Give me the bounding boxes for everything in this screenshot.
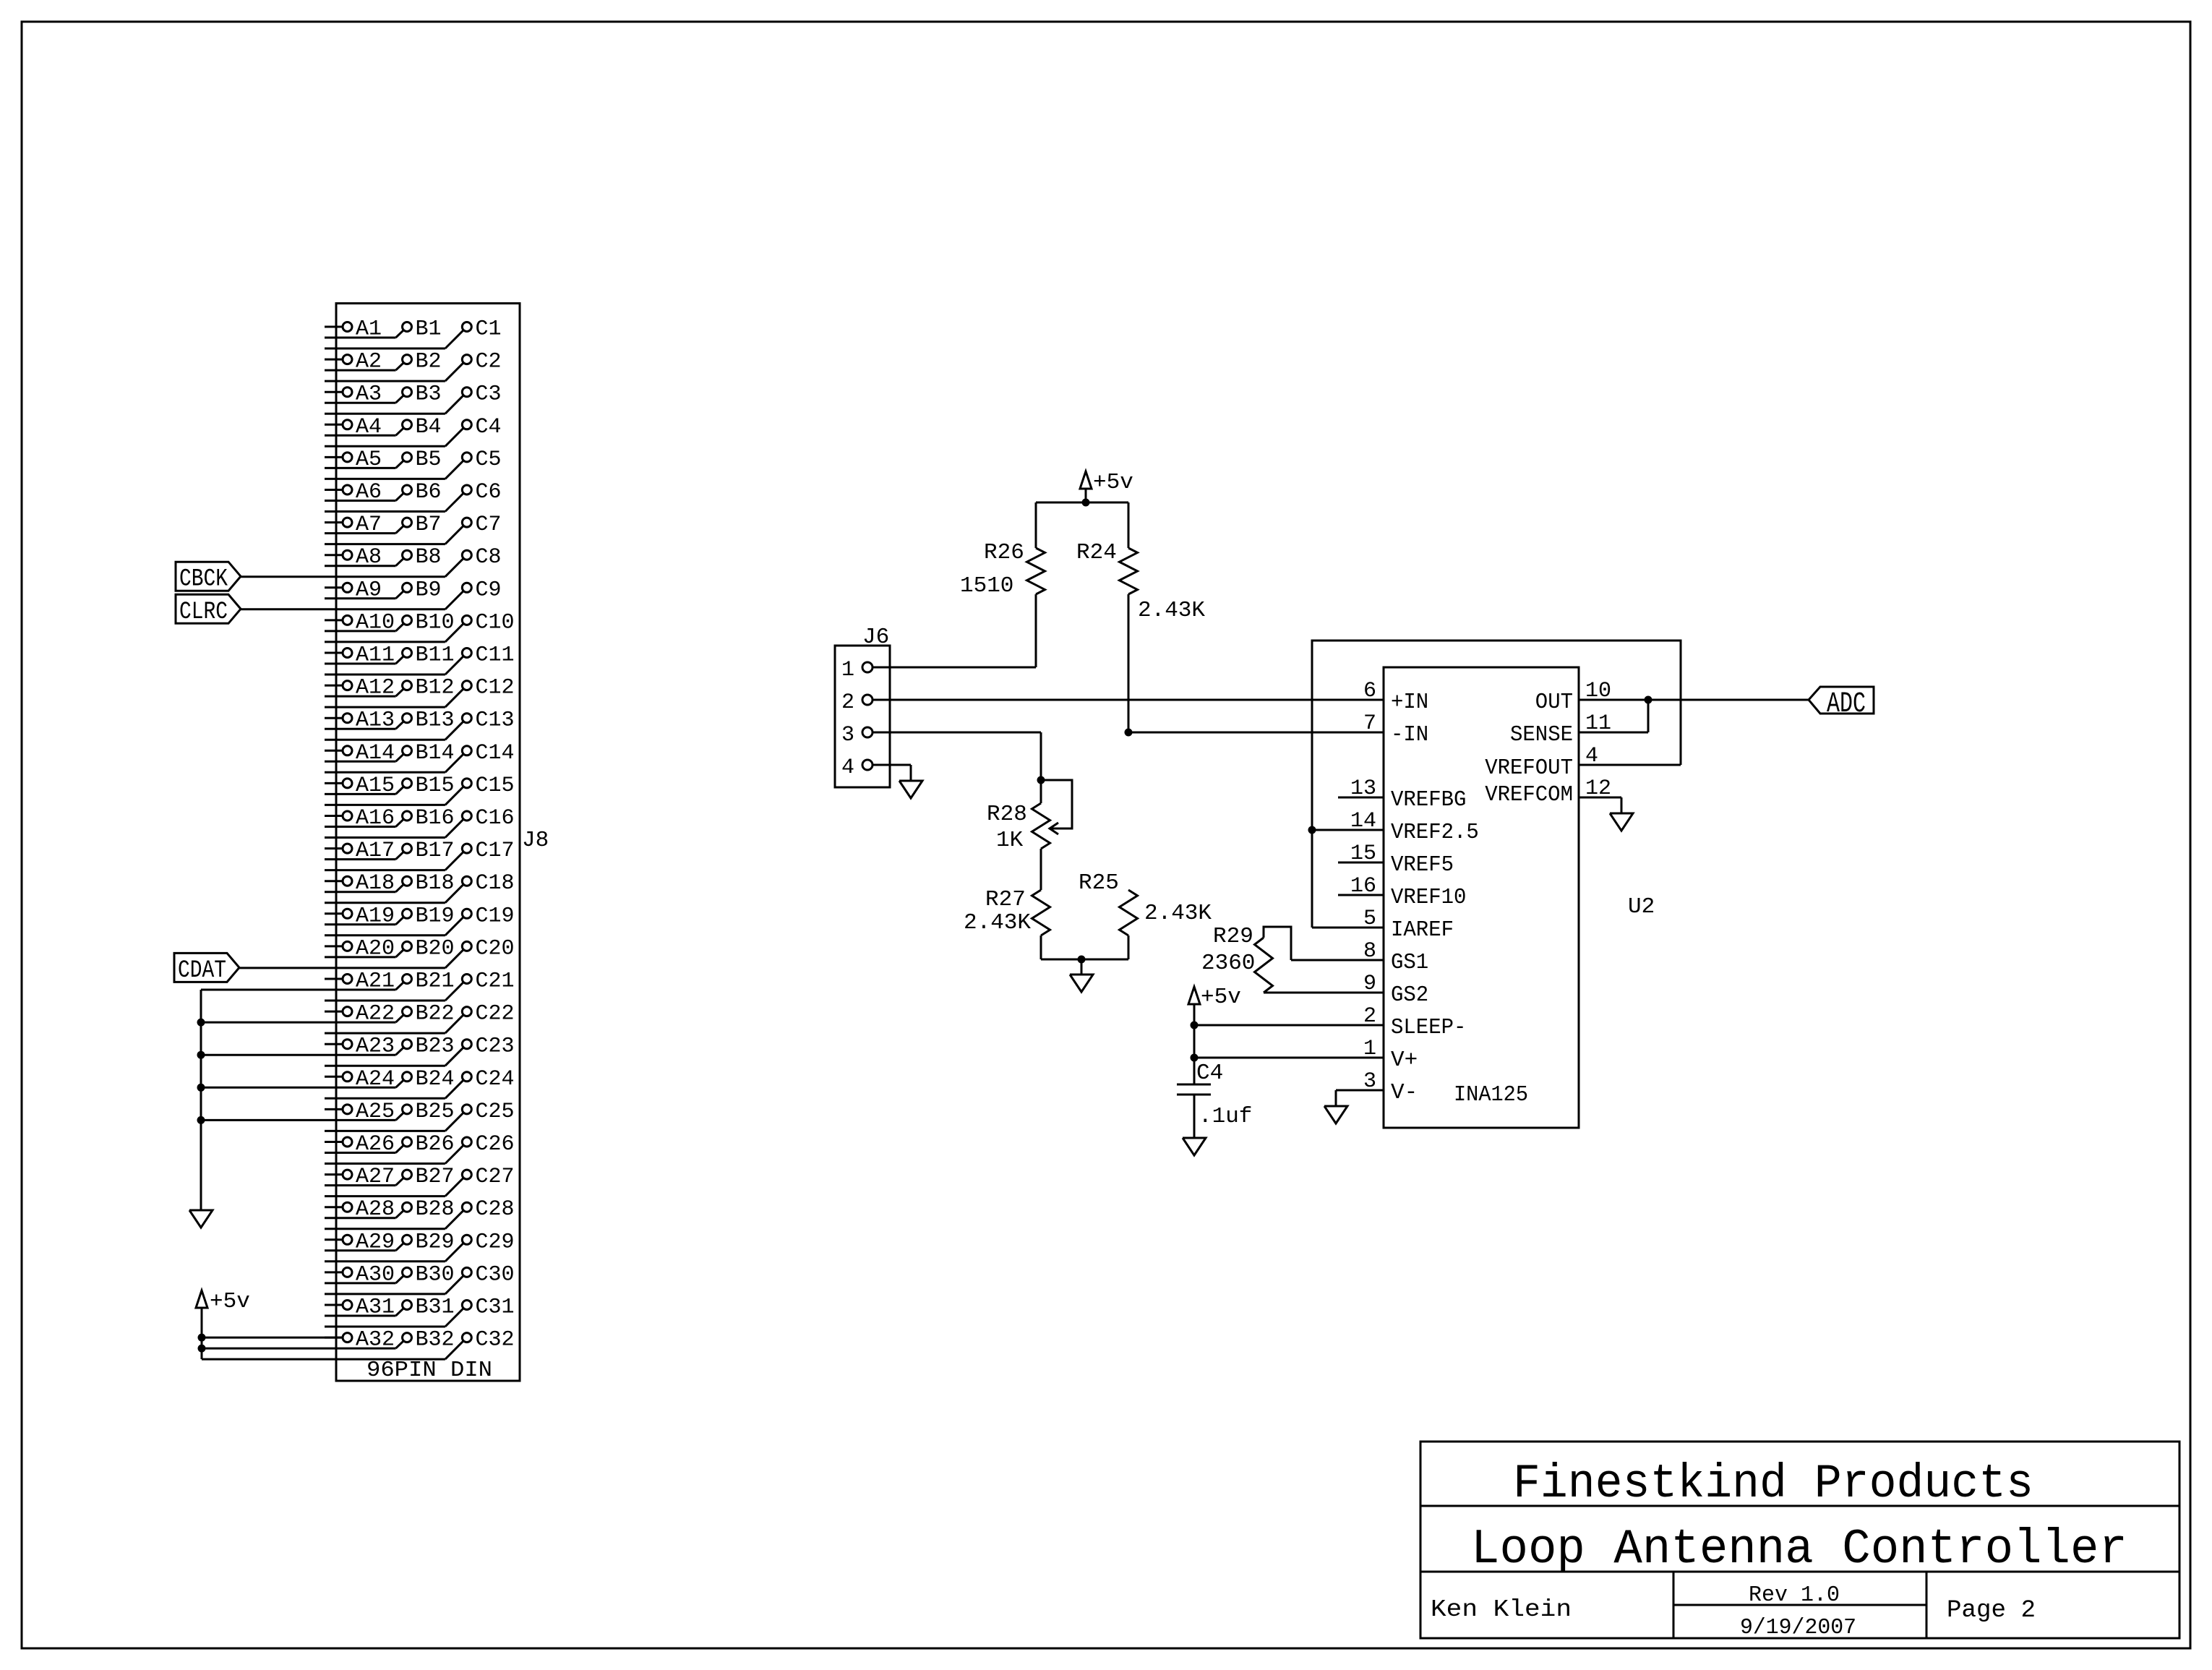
svg-text:VREFCOM: VREFCOM — [1485, 782, 1573, 808]
svg-text:C26: C26 — [476, 1132, 515, 1157]
J8 row 9: pins A9, B9, C9 — [325, 578, 502, 609]
junction +5v B32 — [198, 1345, 206, 1353]
U2 pin label VREF5 — [1391, 852, 1454, 878]
svg-text:C27: C27 — [476, 1165, 515, 1189]
J8 row 17: pins A17, B17, C17 — [325, 839, 515, 870]
junction +5v rail — [1082, 499, 1090, 507]
svg-text:VREF10: VREF10 — [1391, 885, 1466, 910]
svg-text:U2: U2 — [1628, 894, 1655, 920]
J8 row 23: pins A23, B23, C23 — [325, 1035, 515, 1066]
svg-text:VREF2.5: VREF2.5 — [1391, 820, 1479, 845]
svg-text:C2: C2 — [476, 350, 502, 374]
J8 row 3: pins A3, B3, C3 — [325, 382, 502, 414]
junction ground bus B22 — [197, 1019, 205, 1027]
svg-text:B13: B13 — [416, 708, 455, 733]
wire ground bus J8 B23 — [201, 1054, 325, 1056]
svg-text:OUT: OUT — [1535, 690, 1573, 715]
wire VREFCOM to ground — [1579, 797, 1621, 813]
svg-text:B10: B10 — [416, 610, 455, 635]
svg-text:C3: C3 — [476, 382, 502, 407]
ground symbol left bus — [189, 1210, 213, 1228]
wire J6.4 to ground — [873, 765, 911, 781]
svg-text:C22: C22 — [476, 1002, 515, 1027]
svg-text:J8: J8 — [522, 828, 549, 853]
svg-text:+5v: +5v — [1201, 985, 1241, 1010]
svg-text:B19: B19 — [416, 904, 455, 928]
U2 pin label VREFBG — [1391, 787, 1466, 813]
svg-text:B18: B18 — [416, 871, 455, 896]
svg-text:9/19/2007: 9/19/2007 — [1740, 1615, 1856, 1640]
J8 row 29: pins A29, B29, C29 — [325, 1230, 515, 1262]
J6 pin 1 — [841, 658, 873, 682]
J6 pin 3 — [841, 723, 873, 748]
svg-text:C23: C23 — [476, 1035, 515, 1059]
U2 pin label GS1 — [1391, 950, 1428, 975]
J8 row 20: pins A20, B20, C20 — [325, 936, 515, 968]
svg-text:C13: C13 — [476, 708, 515, 733]
U2 value label INA125 — [1454, 1082, 1528, 1108]
svg-text:C18: C18 — [476, 871, 515, 896]
title block frame — [1420, 1442, 2179, 1638]
svg-text:R27: R27 — [985, 887, 1026, 912]
resistor R26 — [960, 502, 1045, 667]
title block author — [1431, 1596, 1572, 1623]
U2 pin number 7 — [1363, 711, 1376, 736]
J8 row 7: pins A7, B7, C7 — [325, 513, 502, 544]
power symbol +5v (J8 bottom) — [196, 1289, 250, 1314]
junction ground bus B23 — [197, 1051, 205, 1059]
J8 row 15: pins A15, B15, C15 — [325, 774, 515, 805]
svg-text:C6: C6 — [476, 480, 502, 505]
wire ground bus vertical — [200, 990, 202, 1210]
wire +5v to A32 — [202, 1337, 343, 1339]
J8 row 6: pins A6, B6, C6 — [325, 480, 502, 512]
svg-text:C7: C7 — [476, 513, 502, 537]
J8 row 2: pins A2, B2, C2 — [325, 350, 502, 381]
svg-text:C9: C9 — [476, 578, 502, 602]
net flag CBCK — [176, 562, 241, 594]
J6 pin 4 — [841, 755, 873, 780]
svg-text:2.43K: 2.43K — [1138, 598, 1205, 623]
svg-text:2: 2 — [841, 690, 854, 715]
ground symbol VREFCOM — [1610, 813, 1633, 831]
U2 pin label VREFCOM — [1485, 782, 1573, 808]
svg-text:C11: C11 — [476, 643, 515, 668]
J8 row 26: pins A26, B26, C26 — [325, 1132, 515, 1164]
svg-text:V-: V- — [1391, 1080, 1418, 1105]
junction R28 top / wiper — [1037, 776, 1045, 784]
U2 pin number 3 — [1363, 1069, 1376, 1094]
junction SLEEP- — [1191, 1022, 1199, 1029]
svg-text:B14: B14 — [416, 741, 455, 766]
svg-text:CLRC: CLRC — [179, 599, 228, 626]
junction VREF2.5 on bracket — [1308, 826, 1316, 834]
J8 row 28: pins A28, B28, C28 — [325, 1197, 515, 1229]
wire V- to ground — [1336, 1090, 1384, 1106]
U2 pin 13 stub — [1338, 797, 1384, 799]
J8 row 10: pins A10, B10, C10 — [325, 610, 515, 642]
svg-text:B26: B26 — [416, 1132, 455, 1157]
ground symbol V- — [1324, 1106, 1347, 1123]
svg-text:INA125: INA125 — [1454, 1082, 1528, 1108]
svg-text:VREF5: VREF5 — [1391, 852, 1454, 878]
svg-text:GS2: GS2 — [1391, 982, 1428, 1008]
title block company name — [1513, 1457, 2033, 1511]
svg-text:2.43K: 2.43K — [1144, 901, 1212, 926]
U2 pin label VREFOUT — [1485, 755, 1573, 781]
svg-text:B21: B21 — [416, 969, 455, 994]
svg-text:B1: B1 — [416, 317, 442, 342]
U2 pin number 2 — [1363, 1004, 1376, 1029]
resistor R24 — [1076, 502, 1205, 732]
svg-text:C32: C32 — [476, 1328, 515, 1353]
svg-text:SLEEP-: SLEEP- — [1391, 1015, 1466, 1040]
U2 pin number 1 — [1363, 1037, 1376, 1061]
wire J6.3 to R28 — [873, 732, 1041, 780]
wire R27/R25 bottoms to ground — [1041, 959, 1128, 961]
wire +5v stem to rail — [1085, 489, 1087, 502]
svg-text:B11: B11 — [416, 643, 455, 668]
svg-text:C10: C10 — [476, 610, 515, 635]
J8 row 12: pins A12, B12, C12 — [325, 676, 515, 708]
svg-text:C24: C24 — [476, 1067, 515, 1092]
net flag CLRC — [176, 594, 241, 626]
J8 row 21: pins A21, B21, C21 — [325, 969, 515, 1001]
svg-text:B25: B25 — [416, 1100, 455, 1124]
junction +5v A32 — [198, 1334, 206, 1342]
svg-text:B6: B6 — [416, 480, 442, 505]
wire R24/R25 to U2 -IN — [1128, 732, 1384, 734]
ground symbol C4 — [1183, 1138, 1206, 1155]
svg-text:SENSE: SENSE — [1510, 722, 1573, 748]
junction OUT/SENSE — [1645, 696, 1652, 704]
J8 row 32: pins A32, B32, C32 — [325, 1328, 515, 1360]
svg-text:B22: B22 — [416, 1002, 455, 1027]
svg-text:GS1: GS1 — [1391, 950, 1428, 975]
J8 row 14: pins A14, B14, C14 — [325, 741, 515, 773]
J8 value label 96PIN DIN — [366, 1358, 492, 1383]
U2 pin number 10 — [1585, 679, 1611, 703]
svg-text:V+: V+ — [1391, 1048, 1418, 1073]
potentiometer R28 — [987, 780, 1072, 853]
svg-text:C12: C12 — [476, 676, 515, 701]
svg-text:4: 4 — [841, 755, 854, 780]
svg-text:C8: C8 — [476, 545, 502, 570]
svg-text:VREFOUT: VREFOUT — [1485, 755, 1573, 781]
wire OUT to ADC — [1579, 699, 1809, 701]
net flag CDAT — [174, 953, 239, 985]
ground symbol R27/R25 — [1070, 959, 1093, 992]
svg-text:CBCK: CBCK — [179, 566, 228, 594]
power symbol +5v (U2 supply) — [1188, 985, 1241, 1010]
net flag ADC — [1809, 687, 1874, 721]
svg-text:B27: B27 — [416, 1165, 455, 1189]
U2 pin label SLEEP- — [1391, 1015, 1466, 1040]
wire J6.2 to U2 +IN — [873, 699, 1384, 701]
junction ground bus B25 — [197, 1116, 205, 1124]
svg-text:B3: B3 — [416, 382, 442, 407]
svg-text:C20: C20 — [476, 936, 515, 961]
J8 row 18: pins A18, B18, C18 — [325, 871, 515, 903]
svg-text:B5: B5 — [416, 448, 442, 472]
resistor R29 — [1201, 924, 1384, 993]
svg-text:B7: B7 — [416, 513, 442, 537]
svg-text:C29: C29 — [476, 1230, 515, 1254]
J6 reference designator label — [862, 625, 889, 650]
svg-text:VREFBG: VREFBG — [1391, 787, 1466, 813]
J8 row 24: pins A24, B24, C24 — [325, 1067, 515, 1099]
svg-text:+5v: +5v — [1093, 470, 1133, 495]
svg-text:B24: B24 — [416, 1067, 455, 1092]
U2 pin number 8 — [1363, 939, 1376, 964]
svg-text:C28: C28 — [476, 1197, 515, 1222]
ground symbol J6.4 — [899, 781, 922, 798]
J8 row 19: pins A19, B19, C19 — [325, 904, 515, 935]
U2 pin label V- — [1391, 1080, 1418, 1105]
svg-text:ADC: ADC — [1827, 688, 1866, 721]
svg-text:R28: R28 — [987, 802, 1027, 827]
svg-text:Rev 1.0: Rev 1.0 — [1749, 1583, 1840, 1608]
svg-text:C21: C21 — [476, 969, 515, 994]
svg-text:C5: C5 — [476, 448, 502, 472]
wire +5v to SLEEP- — [1194, 1024, 1384, 1027]
J8 row 4: pins A4, B4, C4 — [325, 415, 502, 447]
J8 row 27: pins A27, B27, C27 — [325, 1165, 515, 1196]
svg-text:C16: C16 — [476, 806, 515, 831]
op-amp U2 INA125 body — [1384, 667, 1579, 1128]
svg-text:CDAT: CDAT — [178, 957, 226, 985]
svg-text:1510: 1510 — [960, 573, 1013, 599]
J8 reference designator label — [522, 828, 549, 853]
svg-text:B12: B12 — [416, 676, 455, 701]
wire ground bus J8 B24 — [201, 1087, 325, 1089]
connector J6 body — [835, 646, 890, 787]
J8 row 1: pins A1, B1, C1 — [325, 317, 502, 349]
svg-text:C17: C17 — [476, 839, 515, 863]
wire VREFOUT/IAREF/VREF2.5 bracket — [1312, 641, 1681, 928]
U2 pin number 15 — [1350, 842, 1376, 866]
svg-text:C25: C25 — [476, 1100, 515, 1124]
svg-text:B9: B9 — [416, 578, 442, 602]
title block date — [1740, 1615, 1856, 1640]
U2 pin label OUT — [1535, 690, 1573, 715]
svg-text:R24: R24 — [1076, 540, 1117, 565]
J8 row 16: pins A16, B16, C16 — [325, 806, 515, 838]
svg-text:C4: C4 — [1196, 1061, 1223, 1086]
svg-text:IAREF: IAREF — [1391, 917, 1454, 943]
wire +5v to C32 — [202, 1358, 325, 1361]
U2 pin number 12 — [1585, 776, 1611, 801]
J6 pin 2 — [841, 690, 873, 715]
svg-text:B32: B32 — [416, 1328, 455, 1353]
svg-text:C4: C4 — [476, 415, 502, 440]
svg-text:B8: B8 — [416, 545, 442, 570]
wire ground bus J8 B21 — [201, 989, 325, 991]
svg-text:+IN: +IN — [1391, 690, 1428, 715]
svg-text:2360: 2360 — [1201, 951, 1255, 976]
svg-text:B20: B20 — [416, 936, 455, 961]
U2 pin number 4 — [1585, 744, 1598, 768]
svg-text:B23: B23 — [416, 1035, 455, 1059]
wire CDAT to J8 — [239, 967, 325, 969]
svg-text:B28: B28 — [416, 1197, 455, 1222]
svg-text:B31: B31 — [416, 1296, 455, 1320]
svg-text:+5v: +5v — [210, 1289, 250, 1314]
U2 pin label SENSE — [1510, 722, 1573, 748]
wire +5v to B32 — [202, 1348, 325, 1350]
svg-text:96PIN DIN: 96PIN DIN — [366, 1358, 492, 1383]
U2 pin 15 stub — [1338, 862, 1384, 864]
wire ground bus J8 B25 — [201, 1119, 325, 1121]
U2 pin label +IN — [1391, 690, 1428, 715]
connector J8 body (96PIN DIN) — [336, 304, 520, 1381]
J8 row 11: pins A11, B11, C11 — [325, 643, 515, 675]
svg-text:C14: C14 — [476, 741, 515, 766]
wire +5v to V+ — [1194, 1057, 1384, 1059]
U2 pin number 14 — [1350, 809, 1376, 834]
svg-text:B2: B2 — [416, 350, 442, 374]
svg-text:3: 3 — [841, 723, 854, 748]
wire +5v down to V+ — [1193, 1025, 1196, 1058]
wire top rail R26 to R24 — [1036, 502, 1128, 504]
U2 pin number 5 — [1363, 907, 1376, 931]
svg-text:B30: B30 — [416, 1262, 455, 1287]
junction ground bus B24 — [197, 1084, 205, 1092]
U2 pin number 11 — [1585, 711, 1611, 736]
svg-text:B16: B16 — [416, 806, 455, 831]
svg-text:C15: C15 — [476, 774, 515, 798]
svg-text:7: 7 — [1363, 711, 1376, 736]
svg-text:1K: 1K — [996, 828, 1024, 853]
title block project name — [1471, 1522, 2127, 1577]
svg-text:-IN: -IN — [1391, 722, 1428, 748]
svg-text:B17: B17 — [416, 839, 455, 863]
J8 row 31: pins A31, B31, C31 — [325, 1296, 515, 1327]
svg-text:.1uf: .1uf — [1199, 1104, 1252, 1129]
svg-text:B15: B15 — [416, 774, 455, 798]
svg-text:Page 2: Page 2 — [1947, 1597, 2036, 1624]
svg-text:Finestkind Products: Finestkind Products — [1513, 1457, 2033, 1511]
capacitor C4 — [1177, 1058, 1252, 1138]
U2 pin label VREF2.5 — [1391, 820, 1479, 845]
svg-text:C31: C31 — [476, 1296, 515, 1320]
svg-text:R29: R29 — [1213, 924, 1253, 949]
power symbol +5v (R26/R24 rail) — [1080, 470, 1133, 495]
resistor R25 — [1079, 870, 1212, 959]
wire CBCK to J8 — [241, 575, 325, 578]
title block revision — [1749, 1583, 1840, 1608]
junction -IN / R24 / R25 — [1125, 729, 1133, 737]
svg-text:C30: C30 — [476, 1262, 515, 1287]
J8 row 13: pins A13, B13, C13 — [325, 708, 515, 740]
wire +5v stem (U2 supply) — [1193, 1004, 1196, 1025]
wire CLRC to J8 — [241, 608, 325, 610]
svg-text:R25: R25 — [1079, 870, 1119, 896]
U2 pin label VREF10 — [1391, 885, 1466, 910]
junction V+ — [1191, 1054, 1199, 1062]
resistor R27 — [964, 849, 1050, 959]
J8 row 22: pins A22, B22, C22 — [325, 1002, 515, 1034]
U2 pin 16 stub — [1338, 894, 1384, 896]
wire SENSE feedback — [1579, 700, 1648, 732]
svg-text:R26: R26 — [984, 540, 1024, 565]
U2 pin number 13 — [1350, 776, 1376, 801]
J8 row 8: pins A8, B8, C8 — [325, 545, 502, 577]
U2 pin number 16 — [1350, 874, 1376, 899]
svg-text:6: 6 — [1363, 679, 1376, 703]
svg-text:C19: C19 — [476, 904, 515, 928]
junction ground R27/R25 — [1078, 956, 1086, 964]
svg-text:B29: B29 — [416, 1230, 455, 1254]
svg-text:Ken Klein: Ken Klein — [1431, 1596, 1572, 1623]
wire J6.1 to R26 — [873, 667, 1036, 669]
svg-text:Loop Antenna Controller: Loop Antenna Controller — [1471, 1522, 2127, 1577]
wire +5v stem (J8) — [201, 1308, 203, 1359]
U2 pin label V+ — [1391, 1048, 1418, 1073]
svg-text:2.43K: 2.43K — [964, 910, 1031, 935]
U2 pin label GS2 — [1391, 982, 1428, 1008]
svg-text:C1: C1 — [476, 317, 502, 342]
svg-text:J6: J6 — [862, 625, 889, 650]
title block page number — [1947, 1597, 2036, 1624]
wire ground bus J8 B22 — [201, 1022, 325, 1024]
U2 pin number 9 — [1363, 972, 1376, 996]
U2 pin label -IN — [1391, 722, 1428, 748]
U2 pin number 6 — [1363, 679, 1376, 703]
J8 row 30: pins A30, B30, C30 — [325, 1262, 515, 1294]
U2 reference designator label — [1628, 894, 1655, 920]
J8 row 25: pins A25, B25, C25 — [325, 1100, 515, 1131]
J8 row 5: pins A5, B5, C5 — [325, 448, 502, 479]
svg-text:B4: B4 — [416, 415, 442, 440]
U2 pin label IAREF — [1391, 917, 1454, 943]
svg-text:1: 1 — [841, 658, 854, 682]
